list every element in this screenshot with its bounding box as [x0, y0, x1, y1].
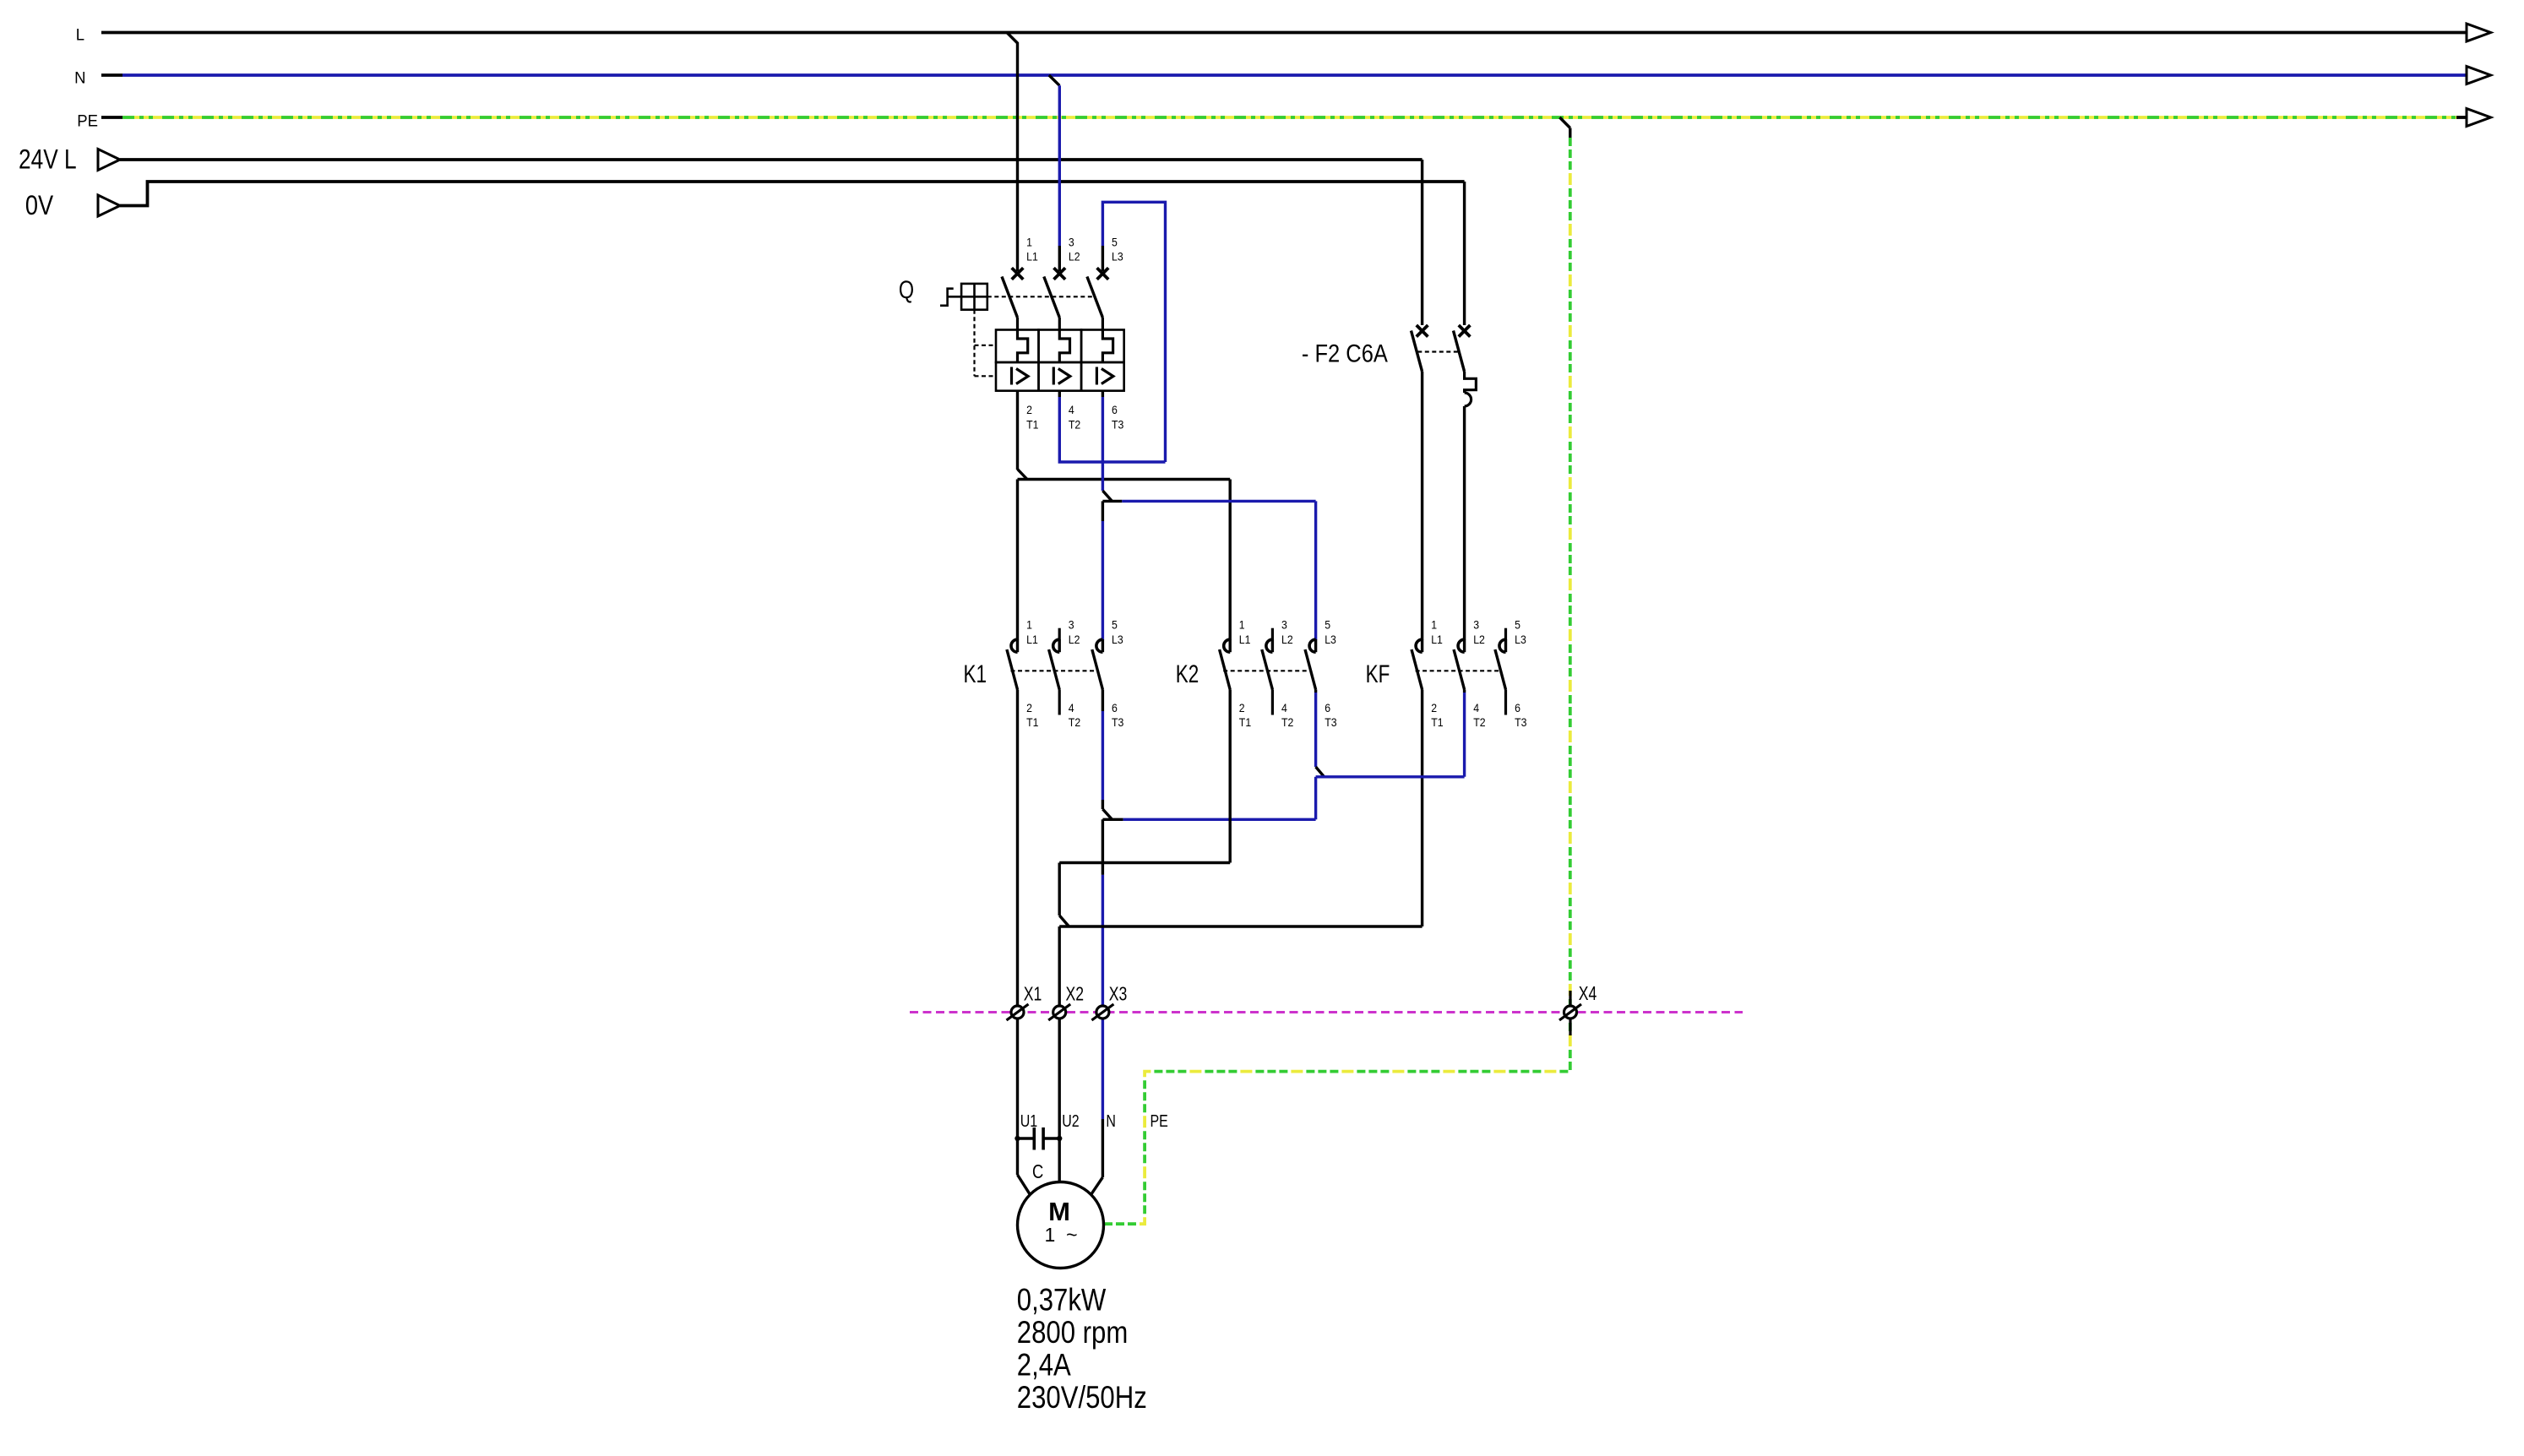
separator magenta dashed	[910, 1011, 1743, 1013]
svg-text:1: 1	[1239, 618, 1245, 632]
svg-text:C: C	[1032, 1161, 1043, 1182]
wire blue loop Q T2 to Q L3	[1058, 391, 1061, 397]
svg-text:N: N	[74, 69, 85, 88]
breaker Q	[1012, 268, 1024, 280]
svg-text:T1: T1	[1026, 418, 1038, 432]
svg-text:1: 1	[1026, 618, 1032, 632]
svg-text:T1: T1	[1239, 715, 1251, 729]
svg-text:X4: X4	[1579, 983, 1597, 1005]
svg-text:1 ~: 1 ~	[1045, 1224, 1078, 1246]
svg-text:5: 5	[1515, 618, 1520, 632]
wire PE drop from bus	[1559, 117, 1569, 128]
terminal X2	[1053, 1006, 1066, 1019]
bus N	[101, 73, 122, 77]
breaker F2 pole1	[1421, 160, 1423, 325]
svg-text:T2: T2	[1281, 715, 1293, 729]
svg-text:3: 3	[1473, 618, 1479, 632]
svg-text:L1: L1	[1026, 633, 1038, 646]
svg-text:L3: L3	[1515, 633, 1526, 646]
svg-text:6: 6	[1325, 701, 1330, 714]
svg-text:6: 6	[1515, 701, 1520, 714]
wire Q T3 down, branch to K1 L3 and K2 L3	[1102, 391, 1104, 397]
svg-text:- F2 C6A: - F2 C6A	[1302, 340, 1388, 367]
svg-text:T2: T2	[1473, 715, 1485, 729]
svg-text:3: 3	[1281, 618, 1287, 632]
rail 0V	[98, 195, 120, 216]
svg-text:L3: L3	[1112, 250, 1123, 263]
wire Q T1 down, branch to K1 L1 and K2 L1	[1016, 391, 1019, 470]
svg-text:L3: L3	[1112, 633, 1123, 646]
svg-text:0,37kW: 0,37kW	[1017, 1283, 1107, 1317]
svg-text:N: N	[1106, 1111, 1116, 1130]
svg-text:2: 2	[1026, 403, 1032, 416]
svg-text:L2: L2	[1281, 633, 1293, 646]
svg-text:2: 2	[1431, 701, 1437, 714]
terminal X1	[1011, 1006, 1024, 1019]
svg-text:X2: X2	[1066, 983, 1085, 1005]
svg-text:5: 5	[1325, 618, 1330, 632]
wire PE to X4 and motor	[1103, 138, 1570, 1224]
svg-text:2,4A: 2,4A	[1017, 1348, 1071, 1383]
svg-text:U2: U2	[1062, 1111, 1079, 1130]
wire K1 T1 to X1 and motor U1	[1016, 690, 1019, 1176]
svg-text:2800 rpm: 2800 rpm	[1017, 1315, 1128, 1350]
svg-text:5: 5	[1112, 236, 1118, 249]
breaker F2 pole2 with magnetic trip	[1463, 182, 1466, 325]
svg-text:5: 5	[1112, 618, 1118, 632]
wire N drop to Q pole2	[1049, 75, 1060, 85]
svg-text:Q: Q	[899, 275, 914, 303]
contactor K1	[1011, 639, 1018, 652]
svg-text:T1: T1	[1026, 715, 1038, 729]
svg-text:2: 2	[1026, 701, 1032, 714]
svg-text:T3: T3	[1112, 715, 1123, 729]
F2 linkage dashed	[1417, 350, 1461, 352]
svg-text:X3: X3	[1109, 983, 1128, 1005]
svg-text:PE: PE	[77, 112, 98, 131]
KF linkage dashed	[1416, 670, 1499, 671]
svg-text:6: 6	[1112, 403, 1118, 416]
svg-text:230V/50Hz: 230V/50Hz	[1017, 1381, 1147, 1415]
svg-text:L1: L1	[1026, 250, 1038, 263]
capacitor C	[1018, 1137, 1035, 1139]
svg-text:4: 4	[1281, 701, 1287, 714]
svg-text:0V: 0V	[25, 191, 53, 221]
svg-text:24V L: 24V L	[19, 145, 77, 175]
svg-text:X1: X1	[1024, 983, 1042, 1005]
svg-text:K1: K1	[964, 660, 987, 688]
svg-text:M: M	[1048, 1197, 1070, 1226]
svg-text:PE: PE	[1150, 1111, 1168, 1130]
svg-text:4: 4	[1069, 403, 1074, 416]
svg-text:L1: L1	[1239, 633, 1251, 646]
bus L	[101, 31, 2467, 35]
svg-text:T1: T1	[1431, 715, 1443, 729]
svg-text:U1: U1	[1020, 1111, 1037, 1130]
svg-text:L: L	[76, 26, 84, 45]
wire K1 T3 down, branch to K2 T3 node (X3 net)	[1102, 690, 1104, 712]
svg-text:T2: T2	[1069, 418, 1080, 432]
svg-text:T3: T3	[1325, 715, 1336, 729]
wire K2 T1 to X2 net	[1228, 690, 1231, 863]
wire K2 T3 down, branch to KF T2	[1314, 690, 1317, 693]
svg-text:T2: T2	[1069, 715, 1080, 729]
svg-text:3: 3	[1069, 618, 1074, 632]
svg-text:3: 3	[1069, 236, 1074, 249]
svg-text:KF: KF	[1366, 660, 1390, 688]
svg-text:4: 4	[1473, 701, 1479, 714]
contactor KF	[1416, 639, 1422, 652]
svg-text:T3: T3	[1515, 715, 1526, 729]
svg-text:L3: L3	[1325, 633, 1336, 646]
svg-text:L2: L2	[1069, 250, 1080, 263]
rail 24V L	[98, 149, 120, 171]
wire L drop to Q pole1	[1007, 33, 1018, 272]
contactor K2	[1224, 639, 1230, 652]
motor M circle	[1018, 1182, 1104, 1269]
svg-text:4: 4	[1069, 701, 1074, 714]
Q trip unit box	[996, 330, 1039, 363]
bus PE	[101, 116, 122, 119]
terminal X3	[1096, 1006, 1109, 1019]
svg-text:6: 6	[1112, 701, 1118, 714]
K1 linkage dashed	[1011, 670, 1096, 671]
Q operator handle and square	[940, 289, 954, 306]
terminal X4	[1569, 991, 1571, 1035]
svg-text:1: 1	[1026, 236, 1032, 249]
svg-text:L1: L1	[1431, 633, 1443, 646]
svg-text:1: 1	[1431, 618, 1437, 632]
svg-text:K2: K2	[1176, 660, 1199, 688]
svg-text:T3: T3	[1112, 418, 1123, 432]
wire X2 branch to KF T1	[1059, 925, 1422, 927]
K2 linkage dashed	[1223, 670, 1308, 671]
svg-text:2: 2	[1239, 701, 1245, 714]
svg-text:L2: L2	[1473, 633, 1485, 646]
Q linkage dashed	[987, 296, 1095, 297]
svg-text:L2: L2	[1069, 633, 1080, 646]
